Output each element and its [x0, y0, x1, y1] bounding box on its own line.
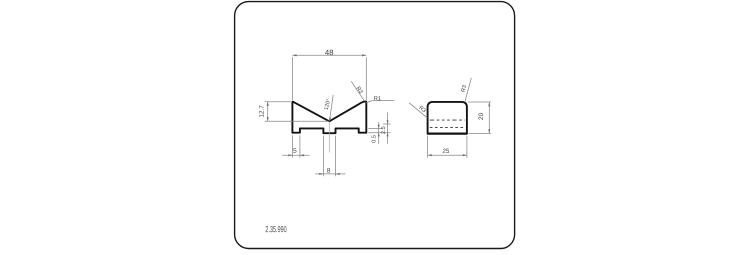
dimension 48 arrows: [292, 54, 366, 56]
dimension 12.7 extension lines: [265, 102, 330, 122]
dimension 20 arrows: [488, 102, 490, 134]
side view bottom edge (heavy): [427, 132, 468, 134]
dimension 25 line: [428, 154, 467, 156]
drawing sheet border: [235, 2, 515, 249]
radius R3 value (side view right): [461, 85, 466, 92]
dimension 2.5 extension line: [383, 123, 391, 125]
dimension 12.7 arrows: [267, 102, 269, 122]
dimension 20 extension lines: [468, 102, 491, 134]
dimension 2.5 arrows: [387, 120, 389, 136]
dimension 48 line: [292, 54, 366, 56]
dimension 8 value: [327, 168, 330, 173]
dimension 8 arrows: [319, 173, 340, 175]
dimension 5 line: [282, 154, 309, 156]
dimension 0.5 extension lines: [368, 128, 390, 132]
radius R1 value: [374, 96, 381, 100]
dimension 0.5 value: [372, 135, 376, 142]
dimension 0.5 arrows: [378, 125, 380, 137]
dimension 12.7 value: [259, 105, 263, 117]
radius R1 leader (front view top corner): [366, 100, 394, 103]
dimension 48 extension lines: [292, 57, 366, 100]
dimension 20 value: [478, 113, 483, 120]
dimension 48 value: [325, 50, 333, 56]
dimension 25 value: [443, 149, 449, 153]
dimension 12.7 line: [267, 102, 269, 122]
dimension 5 arrows: [288, 154, 304, 156]
dimension 8 extension lines: [323, 136, 335, 177]
hidden dashed line lower (side view): [430, 126, 465, 128]
dimension 2.5 line: [387, 113, 389, 144]
part outline front view (V-die cross-section): [292, 102, 366, 134]
dimension 5 value: [293, 148, 296, 153]
dimension 0.5 line: [378, 122, 380, 144]
dimension 2.5 value: [381, 127, 385, 134]
radius R3 value (front view): [356, 86, 363, 94]
part outline side view (rounded block): [428, 102, 467, 134]
radius R3 leader (front view shoulder): [351, 81, 364, 101]
radius R3 value (side view left): [419, 105, 426, 112]
radius R3 leader (side view top-right corner): [465, 78, 471, 101]
dimension 20 line: [488, 102, 490, 134]
dimension 8 line: [315, 173, 345, 175]
angle 120 arrow: [329, 117, 331, 121]
angle 120 leader: [330, 95, 334, 121]
centerline of V notch: [328, 122, 330, 152]
hidden dashed line upper (side view): [430, 119, 465, 121]
part number 2.35.990: [266, 226, 287, 232]
angle 120 value: [324, 99, 330, 110]
dimension 25 extension lines: [428, 136, 467, 158]
dimension 5 extension lines: [293, 135, 300, 157]
dimension 25 arrows: [428, 154, 467, 156]
radius R3 leader (side view top-left corner): [409, 103, 427, 118]
